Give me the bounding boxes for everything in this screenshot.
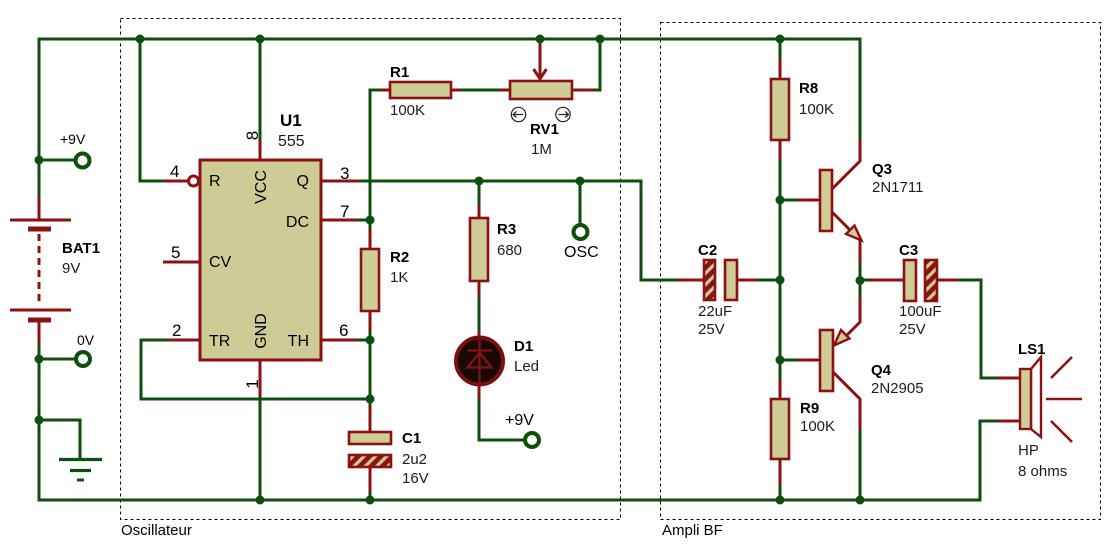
svg-text:+9V: +9V xyxy=(60,131,86,147)
svg-text:6: 6 xyxy=(339,321,348,340)
svg-text:BAT1: BAT1 xyxy=(62,240,100,257)
svg-text:TR: TR xyxy=(209,333,230,350)
pin stub GND pin1 xyxy=(259,360,262,397)
svg-text:VCC: VCC xyxy=(253,170,270,204)
svg-text:Oscillateur: Oscillateur xyxy=(121,522,192,539)
svg-text:+9V: +9V xyxy=(505,412,534,429)
wire pin8 to rail xyxy=(259,39,262,141)
svg-text:C1: C1 xyxy=(402,430,421,447)
wire TH node to C1 xyxy=(369,340,372,406)
RV1 ccw circle xyxy=(511,107,525,121)
wire emitter node xyxy=(859,262,862,298)
terminal +9V left xyxy=(76,154,90,168)
capacitor C3 xyxy=(869,260,958,301)
svg-text:100K: 100K xyxy=(390,102,425,119)
resistor R2 xyxy=(361,249,379,311)
svg-text:555: 555 xyxy=(278,133,305,150)
svg-text:2N2905: 2N2905 xyxy=(871,380,924,397)
svg-text:8 ohms: 8 ohms xyxy=(1018,463,1067,480)
node ground tap xyxy=(35,416,44,425)
R2 stubs xyxy=(369,230,372,330)
wire R8 bottom to divider xyxy=(779,159,782,360)
wire C3 right to speaker xyxy=(958,280,999,378)
svg-text:Q3: Q3 xyxy=(872,161,892,178)
node Q-R3 xyxy=(475,177,484,186)
wire TR loop xyxy=(141,340,370,399)
svg-text:OSC: OSC xyxy=(564,244,599,261)
battery top pin xyxy=(38,196,41,220)
node Q-OSC xyxy=(576,177,585,186)
svg-text:2: 2 xyxy=(172,321,181,340)
node battery minus xyxy=(35,355,44,364)
wire 0V tap xyxy=(39,358,74,361)
R1 stubs xyxy=(380,89,461,92)
wire Q3 base stub xyxy=(780,199,799,202)
R8 stubs xyxy=(779,58,782,160)
node rail-RV1 xyxy=(596,35,605,44)
node rail-R8 xyxy=(776,35,785,44)
wire pin4 to rail xyxy=(140,39,166,181)
terminal 0V xyxy=(76,352,90,366)
svg-text:22uF: 22uF xyxy=(698,303,732,320)
pin stub VCC pin8 xyxy=(259,140,262,160)
Oscillateur box xyxy=(121,19,621,520)
pin4 inversion bubble xyxy=(189,176,199,186)
wire R3 to D1 xyxy=(478,295,481,332)
battery cell2 short plate xyxy=(28,318,51,323)
wire R3 drop xyxy=(478,181,481,205)
svg-text:R3: R3 xyxy=(497,221,516,238)
wire DC stub to node xyxy=(358,219,370,222)
RV1 cw circle xyxy=(556,107,570,121)
wire Q output to C2 xyxy=(358,181,678,280)
node rail-C1 xyxy=(366,496,375,505)
potentiometer RV1 xyxy=(510,81,572,99)
capacitor C2 xyxy=(678,260,758,300)
battery cell1 long plate xyxy=(10,219,71,222)
wire emitter node to C3 xyxy=(860,279,869,282)
svg-text:25V: 25V xyxy=(698,321,725,338)
wire R1 to RV1 xyxy=(460,89,501,92)
Ampli BF box xyxy=(661,23,1101,520)
pin stub DC pin7 xyxy=(322,219,359,222)
svg-text:2u2: 2u2 xyxy=(402,451,427,468)
svg-text:R2: R2 xyxy=(390,249,409,266)
pin stub TR pin2 xyxy=(167,339,200,342)
loudspeaker LS1 xyxy=(998,357,1082,442)
svg-text:DC: DC xyxy=(286,214,309,231)
wire Q4 base stub xyxy=(780,359,798,362)
wire R2 top xyxy=(369,220,372,231)
svg-text:100uF: 100uF xyxy=(899,303,942,320)
svg-text:3: 3 xyxy=(340,164,349,183)
svg-text:9V: 9V xyxy=(62,260,80,277)
svg-text:R1: R1 xyxy=(390,64,409,81)
svg-text:100K: 100K xyxy=(800,418,835,435)
node DC-R2 xyxy=(366,216,375,225)
node rail-Q4 xyxy=(856,496,865,505)
pin stub TH pin6 xyxy=(322,339,359,342)
node rail-pin8 xyxy=(256,35,265,44)
wire OSC drop xyxy=(579,181,582,224)
transistor Q3 xyxy=(798,140,862,263)
RV1 wiper arrow xyxy=(534,44,547,80)
svg-text:100K: 100K xyxy=(799,101,834,118)
svg-text:RV1: RV1 xyxy=(530,121,559,138)
R3 stubs xyxy=(478,204,481,296)
wire R9 bottom xyxy=(779,483,782,500)
battery dashed link xyxy=(38,234,41,302)
svg-text:Q: Q xyxy=(297,173,309,190)
node C2-divider xyxy=(776,276,785,285)
R9 stubs xyxy=(779,380,782,484)
battery cell1 short plate xyxy=(28,227,51,232)
terminal OSC xyxy=(574,225,588,239)
pin stub CV pin5 xyxy=(163,261,200,264)
resistor R9 xyxy=(771,399,789,459)
node rail-wiper xyxy=(536,35,545,44)
wire +9V tap xyxy=(39,159,74,162)
svg-text:1: 1 xyxy=(243,379,262,388)
svg-text:1K: 1K xyxy=(390,269,408,286)
resistor R3 xyxy=(470,218,488,281)
node rail-pin4 xyxy=(136,35,145,44)
node R8-base xyxy=(776,196,785,205)
battery bottom pin xyxy=(38,322,41,343)
svg-text:7: 7 xyxy=(340,202,349,221)
svg-text:TH: TH xyxy=(288,333,309,350)
node rail-R9 xyxy=(776,496,785,505)
RV1 stubs xyxy=(500,89,594,92)
wire R9 top xyxy=(779,360,782,381)
resistor R8 xyxy=(771,79,789,140)
capacitor C1 xyxy=(349,406,391,492)
wire pin1 to ground rail xyxy=(259,396,262,500)
svg-text:HP: HP xyxy=(1018,442,1039,459)
wire R1 left down to DC node xyxy=(370,90,380,220)
svg-text:680: 680 xyxy=(497,242,522,259)
wire RV1 right to rail xyxy=(593,39,600,90)
svg-text:Led: Led xyxy=(514,358,539,375)
wire RV1 wiper to rail xyxy=(539,39,542,45)
wire R2 bottom to TH node xyxy=(369,329,372,340)
node TR corner xyxy=(366,395,375,404)
wire Q4 collector to ground rail xyxy=(859,429,862,500)
wire R8 top xyxy=(779,39,782,59)
svg-text:25V: 25V xyxy=(899,321,926,338)
svg-text:C2: C2 xyxy=(698,242,717,259)
svg-text:Ampli BF: Ampli BF xyxy=(662,522,723,539)
node battery plus xyxy=(35,156,44,165)
transistor Q4 xyxy=(797,297,860,430)
battery cell2 long plate xyxy=(10,309,71,312)
node emitters xyxy=(856,276,865,285)
resistor R1 xyxy=(390,82,451,98)
svg-text:GND: GND xyxy=(253,313,270,349)
battery BAT1 xyxy=(10,196,71,343)
terminal +9V at D1 xyxy=(525,433,539,447)
ground xyxy=(59,460,102,481)
svg-text:4: 4 xyxy=(170,162,179,181)
svg-text:R8: R8 xyxy=(799,80,818,97)
pin stub Q pin3 xyxy=(322,180,359,183)
svg-text:5: 5 xyxy=(171,243,180,262)
wire C1 to ground rail xyxy=(369,492,372,500)
wire D1 to +9V terminal xyxy=(479,397,524,440)
node TH-R2 xyxy=(366,336,375,345)
svg-text:8: 8 xyxy=(243,131,262,140)
svg-text:16V: 16V xyxy=(402,470,429,487)
svg-text:Q4: Q4 xyxy=(871,362,892,379)
svg-text:LS1: LS1 xyxy=(1018,341,1046,358)
wire ground tap xyxy=(39,420,80,458)
svg-text:1M: 1M xyxy=(531,141,552,158)
node rail-pin1 xyxy=(256,496,265,505)
wire top rail xyxy=(39,39,860,197)
LED D1 xyxy=(456,331,503,398)
op-amp U1 555 body xyxy=(200,160,321,360)
svg-text:U1: U1 xyxy=(280,111,302,130)
wire battery minus to ground rail xyxy=(39,342,999,500)
svg-text:R: R xyxy=(209,173,221,190)
wire C2 right to divider xyxy=(758,279,780,282)
svg-text:CV: CV xyxy=(209,254,232,271)
svg-text:0V: 0V xyxy=(77,332,95,348)
svg-text:R9: R9 xyxy=(800,400,819,417)
svg-text:D1: D1 xyxy=(514,338,533,355)
wire TH stub xyxy=(358,339,370,342)
pin stub R pin4 xyxy=(164,180,188,183)
svg-text:C3: C3 xyxy=(899,242,918,259)
svg-text:2N1711: 2N1711 xyxy=(872,179,923,196)
node R9-base xyxy=(776,356,785,365)
